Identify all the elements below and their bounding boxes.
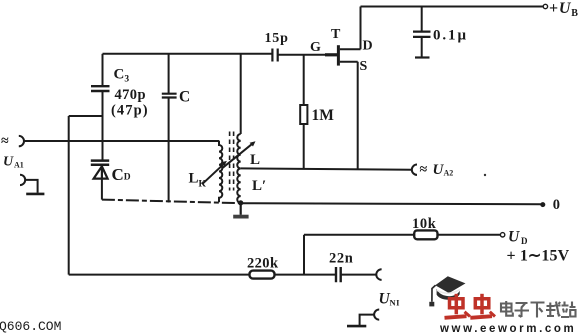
wire bottom rail solid part: [241, 203, 543, 204]
logo chong char 2: [470, 294, 495, 318]
label L': [252, 178, 266, 194]
capacitor 15p plates: [272, 49, 277, 62]
wire riser to UD line: [303, 235, 305, 275]
wire UA1 horizontal: [24, 140, 219, 142]
svg-text:A1: A1: [14, 161, 24, 170]
logo chong char 1: [445, 294, 471, 318]
svg-text:A2: A2: [444, 169, 454, 178]
transistor T drain lead: [340, 48, 361, 50]
node speck: [484, 174, 486, 176]
logo graduation cap tassel knob: [429, 302, 434, 307]
label 10k: [412, 216, 437, 232]
transformer core dashed: [230, 132, 234, 191]
label G: [310, 40, 321, 55]
label (47p): [111, 103, 149, 119]
svg-text:S: S: [360, 59, 368, 74]
wire C branch lower: [168, 98, 170, 203]
wire source riser: [357, 62, 359, 170]
label C3: [114, 67, 130, 85]
transistor T gate lead thick: [325, 53, 337, 56]
wire 220k to 22n: [275, 274, 336, 276]
wire drain riser: [360, 7, 362, 50]
char xia: [531, 303, 545, 318]
char zhan: [561, 302, 576, 318]
svg-text:220k: 220k: [247, 256, 279, 272]
label +UB: [549, 0, 579, 19]
wire bottom rail dashed part: [102, 200, 241, 204]
svg-text:D: D: [363, 39, 373, 54]
svg-text:C: C: [179, 89, 190, 106]
label 470p: [115, 87, 146, 103]
label +1~15V: [507, 247, 570, 264]
svg-text:+UB: +UB: [549, 0, 579, 19]
char zai: [546, 302, 561, 317]
wire top left horizontal: [103, 53, 273, 55]
svg-text:NI: NI: [390, 298, 401, 308]
svg-text:470p: 470p: [115, 87, 146, 103]
transistor T source lead: [340, 61, 358, 63]
ground bar UNI hook: [347, 325, 366, 328]
terminal 0 circle: [540, 202, 545, 207]
wire top +UB rail: [361, 6, 544, 8]
label UNI: [379, 291, 401, 308]
svg-text:C3: C3: [114, 67, 130, 85]
label 0.1u: [433, 28, 468, 44]
inductor LK coil: [219, 141, 222, 203]
svg-text:1M: 1M: [312, 107, 335, 124]
logo graduation cap crown: [437, 289, 460, 300]
capacitor 22n plates: [336, 267, 341, 282]
resistor 220k body: [250, 271, 275, 279]
label UA1: [3, 155, 24, 170]
svg-text:0: 0: [553, 197, 560, 213]
svg-text:15p: 15p: [265, 31, 289, 46]
svg-text:Q606.COM: Q606.COM: [0, 319, 61, 334]
logo graduation cap tassel: [432, 285, 436, 302]
ground bar: [233, 215, 248, 219]
terminal UA2 arc: [412, 165, 417, 175]
label approx UA1: [1, 134, 9, 149]
svg-text:L′: L′: [252, 178, 266, 194]
svg-text:LK: LK: [189, 171, 207, 190]
label UD: [508, 229, 528, 246]
terminal UA1 input arc: [19, 136, 24, 146]
terminal +UB circle: [543, 4, 547, 8]
wire 1M riser upper: [303, 55, 305, 105]
ground stem: [240, 203, 242, 215]
capacitor C plates: [162, 94, 177, 98]
char zi: [515, 303, 530, 317]
logo text dianzi xiazaizhan: [501, 301, 576, 318]
label CD: [112, 165, 131, 184]
svg-text:+ 1∼15V: + 1∼15V: [507, 247, 570, 264]
capacitor C4 0.1u riser: [421, 7, 423, 32]
capacitor C4 0.1u plates: [413, 32, 431, 37]
ground bar left: [26, 193, 44, 196]
label 15p: [265, 31, 289, 46]
wire 22n to terminal: [341, 274, 376, 276]
wire ground hook left: [25, 180, 37, 193]
resistor 1M body: [300, 105, 307, 124]
terminal UNI hook arc: [374, 310, 379, 320]
capacitor C3 plates: [91, 86, 110, 91]
logo graduation cap stripe: [437, 290, 460, 294]
terminal UD circle: [500, 233, 504, 237]
label S: [360, 59, 368, 74]
wire left vertical: [68, 116, 70, 275]
svg-text:T: T: [331, 27, 341, 42]
svg-text:U: U: [508, 229, 520, 246]
svg-text:L: L: [250, 152, 260, 168]
label D: [363, 39, 373, 54]
wire gate: [278, 54, 337, 56]
capacitor C4 0.1u end bar: [415, 56, 430, 58]
svg-text:U: U: [3, 155, 14, 170]
svg-text:CD: CD: [112, 165, 131, 184]
wire 1M riser lower: [303, 124, 305, 169]
svg-text:D: D: [521, 236, 528, 246]
resistor 10k body: [414, 230, 437, 239]
arrow L: [223, 141, 256, 168]
label L: [250, 152, 260, 168]
label 22n: [329, 251, 353, 267]
wire tap to UA2: [241, 168, 412, 169]
label 220k: [247, 256, 279, 272]
svg-text:≈: ≈: [420, 163, 428, 178]
transistor T channel bar: [337, 45, 340, 65]
svg-text:www.eeworm.com: www.eeworm.com: [439, 323, 576, 334]
node transformer bottom junction: [238, 200, 243, 205]
svg-text:(47p): (47p): [111, 103, 149, 119]
varicap CD plates: [91, 161, 109, 165]
label 0: [553, 197, 560, 213]
label C: [179, 89, 190, 106]
svg-text:≈: ≈: [1, 134, 9, 149]
inductor L coil: [237, 134, 240, 203]
label LK: [189, 171, 207, 190]
wire C3 to CD: [102, 92, 104, 160]
logo graduation cap board: [435, 276, 465, 293]
label T: [331, 27, 341, 42]
wire left link: [69, 115, 103, 117]
wire C3 branch upper: [102, 54, 104, 86]
wire C branch upper: [168, 54, 170, 93]
wire bottom feedback: [69, 274, 250, 276]
svg-text:10k: 10k: [412, 216, 437, 232]
label approx UA2: [420, 162, 454, 178]
terminal ground hook left arc: [20, 175, 25, 185]
varicap CD diode triangle: [94, 166, 108, 178]
wire L top riser: [240, 54, 242, 134]
terminal 22n arc: [376, 269, 381, 280]
char dian: [501, 301, 513, 316]
wire CD to rail: [101, 179, 103, 200]
capacitor C4 0.1u lower stub: [421, 38, 423, 57]
svg-text:G: G: [310, 40, 321, 55]
arrow LK: [203, 161, 227, 184]
svg-text:0.1μ: 0.1μ: [433, 28, 468, 44]
label 1M: [312, 107, 335, 124]
wire 10k to UD: [438, 234, 501, 236]
wire UNI hook: [360, 315, 374, 325]
svg-text:22n: 22n: [329, 251, 353, 267]
wire UD horizontal: [304, 234, 414, 236]
